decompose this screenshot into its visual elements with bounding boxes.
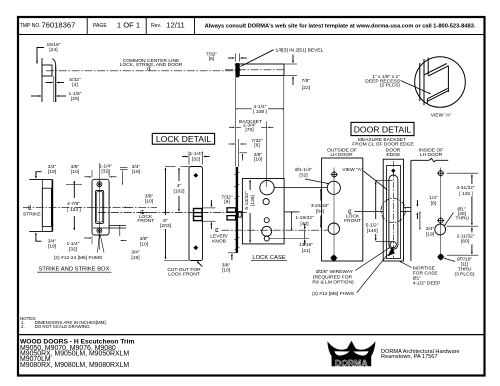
dim 4-31/32 line	[471, 175, 473, 185]
strike opening outer	[96, 190, 104, 223]
svg-text:DOOR DETAIL: DOOR DETAIL	[354, 125, 412, 135]
svg-text:[19]: [19]	[48, 169, 57, 175]
outside door panel	[322, 158, 363, 261]
dia 7/16 leader	[444, 258, 455, 261]
dia 1-1/4 leader	[305, 179, 329, 184]
cylinder alignment line	[274, 187, 327, 189]
svg-text:[ 108 ]: [ 108 ]	[253, 109, 267, 115]
svg-text:FROM CL OF DOOR EDGE: FROM CL OF DOOR EDGE	[352, 142, 414, 148]
dim 3/4 bottom bracket	[36, 239, 42, 241]
dim 3/8 front gap bracket	[240, 152, 248, 154]
view A recess edge vertical	[427, 58, 429, 76]
door edge strip inner	[387, 165, 401, 258]
svg-text:LOCK FRONT: LOCK FRONT	[168, 272, 200, 278]
plate 3/4 dim ticks	[120, 166, 128, 168]
strike screw top	[97, 182, 102, 187]
svg-text:[6]: [6]	[224, 199, 230, 205]
svg-text:4-7/8": 4-7/8"	[67, 201, 80, 207]
svg-text:[ 124 ]: [ 124 ]	[67, 207, 81, 213]
lock front edge bar	[236, 167, 238, 253]
lock front stadium	[389, 175, 398, 249]
svg-text:[32]: [32]	[299, 173, 308, 179]
small hole below cylinder	[263, 199, 269, 205]
dim 7/8 arrows	[292, 55, 294, 63]
svg-text:1-1/4": 1-1/4"	[190, 151, 203, 157]
svg-text:KNOB: KNOB	[212, 239, 226, 245]
outside cylinder circle	[327, 181, 340, 194]
svg-text:[29]: [29]	[71, 96, 80, 102]
svg-text:STRIKE: STRIKE	[23, 211, 41, 217]
svg-text:4-31/32": 4-31/32"	[456, 185, 475, 191]
svg-text:1-1/4": 1-1/4"	[67, 241, 80, 247]
svg-text:2-11/32": 2-11/32"	[457, 233, 475, 239]
fhms leader	[98, 235, 100, 253]
svg-text:4-1/2" DEEP: 4-1/2" DEEP	[413, 281, 441, 287]
svg-text:[19]: [19]	[131, 255, 140, 261]
ext line cylinder center	[266, 122, 268, 188]
dim arrows right of plate	[124, 206, 131, 208]
wireway leader	[355, 248, 390, 271]
svg-text:13/16": 13/16"	[299, 242, 313, 248]
svg-text:Always consult DORMA's web sit: Always consult DORMA's web site for late…	[205, 24, 476, 30]
svg-text:2.: 2.	[21, 324, 25, 329]
svg-text:FRONT: FRONT	[137, 218, 154, 224]
svg-text:Ø3/8" WIREWAY: Ø3/8" WIREWAY	[316, 269, 354, 275]
svg-text:[6]: [6]	[254, 142, 260, 148]
svg-text:L: L	[149, 67, 152, 73]
strike jamb face line	[41, 58, 43, 102]
svg-text:3-23/32": 3-23/32"	[311, 203, 330, 209]
dim 4-7/8 line	[73, 181, 75, 198]
svg-text:[32]: [32]	[101, 169, 110, 175]
plate screw diamond bottom	[193, 245, 198, 250]
svg-text:3/8": 3/8"	[140, 236, 149, 242]
dim 7/32 ext ticks top	[235, 54, 237, 62]
small hole below hub	[264, 236, 269, 241]
ext line case right edge	[283, 76, 285, 178]
strike centerline	[23, 206, 157, 208]
svg-text:3/4": 3/4"	[426, 226, 435, 232]
recess label leader	[401, 81, 431, 94]
dim 3/8 bar bottom	[228, 252, 237, 254]
strike box jamb face	[41, 180, 43, 232]
ext line bar right edge	[238, 139, 240, 167]
cutout leader	[197, 262, 202, 267]
bevel leader line	[241, 50, 274, 67]
svg-text:[10]: [10]	[222, 268, 231, 274]
dim ticks right side	[447, 172, 479, 174]
strike box top edge	[29, 179, 52, 181]
svg-text:[24]: [24]	[49, 47, 58, 53]
lever knob centerline	[222, 229, 329, 231]
dim 3/8 box ticks	[66, 184, 82, 186]
svg-text:[10]: [10]	[254, 157, 263, 163]
dim 8 inch line	[165, 168, 167, 215]
header divider line	[18, 34, 485, 36]
strike opening inner	[97, 192, 103, 222]
hub cutout 3 cells	[194, 209, 203, 221]
view A right vertical	[447, 66, 449, 92]
svg-text:1 OF 1: 1 OF 1	[117, 20, 140, 29]
view A upper recess diagonals	[424, 64, 447, 75]
svg-text:LH DOOR: LH DOOR	[420, 152, 443, 158]
dim 13/16 line	[304, 230, 306, 238]
svg-text:LOCK DETAIL: LOCK DETAIL	[156, 134, 211, 144]
lock front plate cutout rect	[189, 167, 203, 261]
view A door face line 2	[423, 59, 425, 105]
svg-text:[10]: [10]	[140, 241, 149, 247]
lock front centerline	[98, 212, 247, 214]
svg-text:LOCK CASE: LOCK CASE	[252, 255, 285, 261]
mortise leader	[400, 261, 412, 267]
svg-text:5/32": 5/32"	[69, 77, 81, 83]
svg-text:[32]: [32]	[69, 247, 78, 253]
dia 1 thru leader	[445, 213, 454, 226]
outside panel screw centerline	[333, 168, 335, 259]
svg-text:FRONT: FRONT	[344, 218, 361, 224]
header cell divider 3	[194, 17, 196, 35]
inside dia 1 thru circle	[435, 224, 446, 235]
svg-text:[22]: [22]	[302, 85, 311, 91]
svg-text:76018367: 76018367	[42, 20, 76, 29]
strike plate edge line	[55, 66, 57, 103]
svg-text:L: L	[29, 206, 32, 212]
dim 5/32 arrows	[46, 82, 53, 84]
DORMA logo crown	[327, 341, 375, 368]
svg-text:EDGE: EDGE	[386, 152, 401, 158]
lock case rect	[242, 179, 284, 244]
strike title underline	[37, 271, 112, 273]
svg-text:[4]: [4]	[72, 82, 78, 88]
svg-text:[ 126 ]: [ 126 ]	[459, 191, 473, 197]
lock case label underline	[251, 259, 287, 261]
svg-text:[140]: [140]	[367, 228, 379, 234]
svg-text:5-1/2": 5-1/2"	[366, 222, 379, 228]
svg-text:7/8": 7/8"	[302, 78, 311, 84]
hub on edge bar	[227, 208, 236, 220]
svg-text:[60]: [60]	[461, 239, 470, 245]
ext line bar top to side view	[235, 78, 237, 167]
dim 5-1/2 ticks	[376, 179, 393, 181]
view A detail circle	[415, 57, 466, 108]
svg-text:LH DOOR: LH DOOR	[330, 152, 353, 158]
svg-text:[40]: [40]	[300, 221, 309, 227]
dim 2-11/32 line	[471, 227, 473, 232]
strike box bottom edge	[29, 230, 52, 232]
inside bottom screw target filled	[437, 253, 444, 260]
dim arrows plate top	[85, 176, 91, 178]
inside middle screw target	[437, 217, 444, 224]
svg-text:Ø1-1/4": Ø1-1/4"	[295, 167, 312, 173]
strike plate vertical centerline	[99, 163, 101, 250]
svg-text:M9080RX, M9080LM, M9080RXLM: M9080RX, M9080LM, M9080RXLM	[20, 362, 129, 369]
svg-text:Reamstown, PA 17567: Reamstown, PA 17567	[381, 354, 438, 360]
svg-text:4": 4"	[177, 183, 182, 189]
svg-text:1/8[3] IN 2[51] BEVEL: 1/8[3] IN 2[51] BEVEL	[276, 48, 324, 54]
dim backset arrows	[229, 126, 235, 128]
plate screw diamond top	[193, 173, 198, 178]
view A bottom vertical	[426, 99, 428, 104]
svg-text:Rev.: Rev.	[151, 23, 161, 29]
dim 5-13/32 line	[249, 180, 251, 190]
strike plate inner line	[53, 76, 55, 102]
svg-text:(3 PLCS): (3 PLCS)	[454, 272, 474, 278]
strike screw bottom	[97, 228, 102, 233]
dim 4 inch line	[178, 168, 180, 181]
latch lines door edge to inside panel	[404, 207, 412, 209]
strike plate outline	[92, 179, 109, 235]
door detail title box	[351, 122, 414, 135]
dim 3-23/32 line	[320, 189, 322, 201]
strike lip lines	[109, 224, 126, 226]
strike box cavity	[42, 188, 51, 226]
inside top screw target	[437, 170, 444, 177]
svg-text:[70]: [70]	[245, 127, 254, 133]
bevel mark on plate	[235, 65, 241, 71]
svg-text:THRU: THRU	[456, 216, 470, 222]
footer divider line	[18, 334, 485, 336]
common center line	[46, 70, 236, 72]
dim 15/16 bracket	[37, 48, 44, 63]
lock front side view plate	[235, 63, 239, 77]
door edge screw diamond	[391, 169, 395, 173]
lock front centerline label line	[355, 211, 384, 213]
svg-text:[102]: [102]	[174, 188, 186, 194]
fhws big arrowhead	[387, 247, 395, 257]
mortise dashed circle	[381, 198, 405, 222]
dim 7/32 bar arrows	[229, 143, 235, 145]
svg-text:1/4": 1/4"	[429, 195, 438, 201]
svg-text:DO NOT SCALE DRAWING.: DO NOT SCALE DRAWING.	[35, 324, 91, 329]
svg-text:[19]: [19]	[132, 169, 141, 175]
strike lip curve	[52, 59, 55, 66]
svg-text:TMP NO.: TMP NO.	[20, 23, 41, 29]
svg-text:8": 8"	[163, 218, 168, 224]
bottom dim arrows	[84, 237, 91, 239]
dim 7/32 hub cutout	[203, 207, 216, 209]
svg-text:[94]: [94]	[316, 209, 325, 215]
inside panel left edge	[410, 160, 412, 261]
svg-text:[6]: [6]	[209, 56, 215, 62]
svg-text:[19]: [19]	[426, 232, 435, 238]
dim 3/4 bracket	[419, 212, 421, 230]
outside lever circle	[328, 223, 339, 234]
fhws leader	[357, 255, 388, 293]
svg-text:5-13/32": 5-13/32"	[244, 191, 250, 210]
dim 1/4 bracket	[416, 200, 418, 206]
inside screw centerline	[440, 168, 442, 258]
svg-text:[10]: [10]	[145, 198, 154, 204]
svg-text:VIEW "A": VIEW "A"	[342, 167, 363, 173]
svg-text:12/11: 12/11	[166, 20, 184, 29]
svg-text:3/4": 3/4"	[48, 239, 57, 245]
view A leader	[364, 171, 388, 190]
svg-text:[21]: [21]	[302, 248, 311, 254]
svg-text:(2 PLCS): (2 PLCS)	[380, 83, 400, 89]
edge bar hatch ticks	[235, 172, 240, 250]
svg-text:(2) #12-24 [M6] FHMS: (2) #12-24 [M6] FHMS	[54, 255, 103, 261]
svg-text:PAGE: PAGE	[93, 23, 107, 29]
lock detail title box	[152, 133, 214, 144]
dim 4-1/4 line	[236, 108, 252, 110]
door edge strip outer	[383, 159, 403, 261]
small hole above hub	[264, 218, 269, 223]
dim 5-1/2 line	[375, 182, 377, 220]
lever hub circle	[262, 226, 272, 236]
svg-text:[138]: [138]	[250, 194, 256, 206]
dim 3/4 top bracket	[36, 172, 42, 174]
dim 1-1/4 plate width	[188, 152, 190, 165]
outside bottom screw target filled	[330, 254, 337, 261]
side view center line	[225, 69, 284, 71]
svg-text:STRIKE AND STRIKE BOX: STRIKE AND STRIKE BOX	[39, 266, 110, 272]
svg-text:4-1/4": 4-1/4"	[254, 104, 267, 110]
dim 7/8 ext ticks	[285, 63, 298, 65]
svg-text:VIEW "A": VIEW "A"	[431, 113, 452, 119]
strike plate edge thick	[51, 180, 53, 232]
svg-text:(2) #12 [M6] FHWS: (2) #12 [M6] FHWS	[312, 291, 355, 297]
plate top ext ticks	[91, 170, 93, 178]
dim 1-19/32 line	[291, 212, 293, 230]
svg-text:Ø1": Ø1"	[413, 275, 422, 281]
dim 1-1/8 arrows	[31, 95, 41, 97]
header cell divider 1	[86, 17, 88, 35]
svg-text:[6]: [6]	[431, 201, 437, 207]
svg-text:3/4": 3/4"	[131, 250, 140, 256]
svg-text:1-19/32": 1-19/32"	[295, 215, 314, 221]
lock case side view rect	[239, 64, 284, 75]
svg-text:DORMA: DORMA	[335, 358, 368, 368]
svg-text:[203]: [203]	[160, 223, 172, 229]
svg-text:[32]: [32]	[192, 156, 201, 162]
wireway small circle	[390, 242, 396, 248]
svg-text:L: L	[216, 228, 219, 234]
strike box plan rect	[42, 65, 52, 76]
svg-text:[19]: [19]	[48, 244, 57, 250]
door edge vertical centerline	[392, 161, 394, 258]
view A lower recess diagonals	[427, 88, 447, 98]
outside top screw target	[331, 171, 338, 178]
svg-text:[10]: [10]	[71, 169, 80, 175]
inside panel top edge with break	[411, 159, 448, 162]
view A door face line 1	[419, 63, 421, 101]
header cell divider 2	[145, 17, 147, 35]
svg-text:RX & LM OPTION): RX & LM OPTION)	[312, 279, 354, 285]
cylinder hole circle	[260, 180, 274, 194]
dim 7/32 arrows top	[228, 57, 234, 59]
lip bracket vertical	[119, 225, 121, 236]
